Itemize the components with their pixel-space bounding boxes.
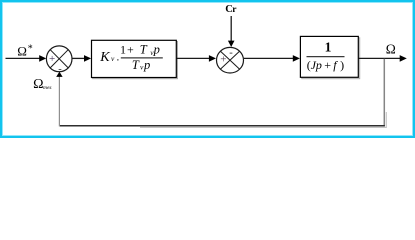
wire feedback left vertical rise into S1 bbox=[56, 72, 62, 127]
wire feedback shadow bbox=[140, 112, 386, 127]
svg-text:+: + bbox=[220, 54, 226, 66]
node Omega output label bbox=[386, 42, 396, 57]
svg-text:+: + bbox=[127, 43, 134, 57]
wire S2 to block B2 bbox=[244, 55, 300, 62]
wire feedback right vertical drop bbox=[383, 59, 385, 126]
block B2 mechanical plant 1/(Jp+f) bbox=[300, 36, 359, 78]
svg-text:mes: mes bbox=[43, 85, 52, 91]
node Omega_mes measured speed label bbox=[33, 77, 51, 92]
svg-text:T: T bbox=[132, 58, 140, 72]
node Omega* reference input label bbox=[17, 43, 33, 58]
summing junction S2 bbox=[217, 47, 244, 73]
svg-text:Ω: Ω bbox=[33, 77, 43, 92]
svg-text:K: K bbox=[99, 50, 110, 65]
svg-text:T: T bbox=[140, 43, 148, 57]
wire feedback bottom horizontal bbox=[59, 125, 385, 127]
wire block B1 to summing junction S2 bbox=[177, 55, 217, 62]
svg-text:1: 1 bbox=[325, 39, 332, 54]
cyan page border frame bbox=[1, 1, 414, 137]
wire input arrow into summing junction S1 bbox=[6, 55, 47, 62]
svg-text:*: * bbox=[28, 44, 33, 55]
summing junction S1 bbox=[46, 46, 72, 75]
svg-text:): ) bbox=[340, 58, 344, 72]
block B1 speed controller Kv(1+Tvp)/(Tvp) bbox=[92, 40, 178, 78]
svg-text:+: + bbox=[324, 58, 331, 72]
svg-text:p: p bbox=[143, 58, 150, 72]
svg-text:Jp: Jp bbox=[311, 58, 322, 72]
svg-text:+: + bbox=[49, 53, 55, 65]
svg-text:-: - bbox=[229, 48, 233, 59]
wire S1 to block B1 bbox=[72, 55, 91, 62]
svg-text:Ω: Ω bbox=[386, 42, 396, 57]
wire Cr arrow into summing junction S2 bbox=[228, 16, 235, 47]
svg-text:p: p bbox=[153, 43, 160, 57]
svg-text:1: 1 bbox=[120, 43, 126, 57]
wire output arrow bbox=[359, 55, 407, 62]
svg-text:Ω: Ω bbox=[17, 43, 27, 58]
node Cr load torque label bbox=[225, 4, 237, 15]
